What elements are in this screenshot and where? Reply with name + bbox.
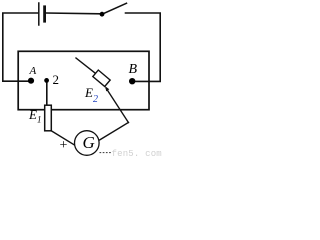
wire switch to right side down to node B [126, 13, 161, 81]
wire E1 to galvanometer G [51, 131, 75, 146]
node A [28, 78, 34, 84]
dashed lead bottom right of G [100, 152, 112, 154]
wire vertex to galvanometer right [99, 123, 128, 141]
switch blade [102, 3, 127, 14]
wire top-left from battery to left side [3, 13, 38, 81]
wire E2 bottom lead to vertex [106, 88, 128, 123]
wire battery to switch [46, 12, 100, 15]
battery E plate long [38, 3, 40, 25]
box (black box outline) [18, 51, 149, 109]
resistor E1 body [45, 105, 52, 131]
node B [129, 78, 135, 84]
watermark [112, 149, 162, 159]
wire terminal 2 down to E1 [46, 82, 48, 105]
label G [83, 133, 95, 153]
label A [30, 65, 37, 77]
node 2 terminal [44, 78, 49, 83]
switch pivot dot [100, 12, 105, 17]
galvanometer G circle [75, 131, 100, 156]
resistor E2 body (tilted) [93, 70, 110, 86]
label 2 [53, 72, 60, 88]
wire E2 top lead [76, 58, 96, 73]
label E2 [85, 85, 98, 104]
label + polarity [60, 138, 68, 154]
label B [129, 62, 138, 78]
battery E plate short thick [43, 7, 46, 21]
label E1 [29, 107, 41, 125]
arrowhead at E2 bottom [105, 86, 109, 91]
